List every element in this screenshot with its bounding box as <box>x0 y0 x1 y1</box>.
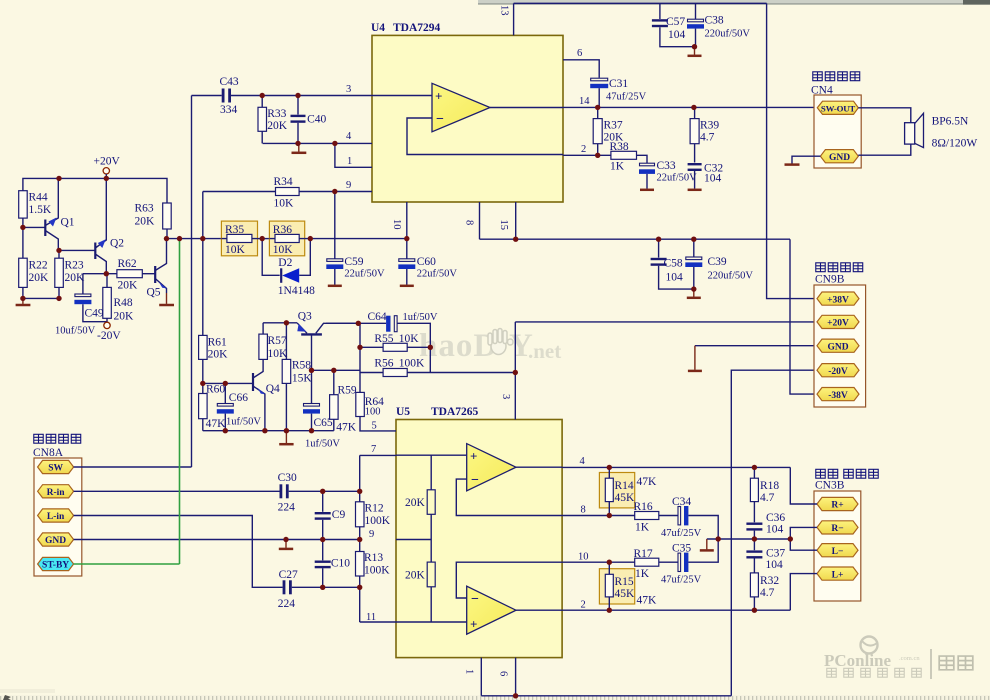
svg-text:TDA7294: TDA7294 <box>393 22 441 34</box>
svg-text:CN9B: CN9B <box>815 274 845 286</box>
svg-text:GND: GND <box>829 153 850 163</box>
speaker BP6.5N <box>905 113 978 149</box>
svg-text:L+: L+ <box>832 570 844 580</box>
capacitor C35 <box>661 539 718 586</box>
transistor Q5 <box>147 239 168 299</box>
wire U5 pin3 riser <box>514 322 516 420</box>
svg-text:C36: C36 <box>766 512 785 524</box>
svg-text:Q2: Q2 <box>110 238 124 250</box>
op-amp U5 block <box>396 406 562 658</box>
wire CN9B GND <box>695 345 817 347</box>
wire speaker - <box>858 144 911 155</box>
svg-text:GND: GND <box>45 536 66 546</box>
resistor R35 highlighted <box>221 221 257 256</box>
svg-text:R62: R62 <box>118 258 137 270</box>
svg-text:R44: R44 <box>29 192 48 204</box>
svg-text:224: 224 <box>278 598 296 610</box>
wire Q3 base net <box>312 369 361 371</box>
svg-text:R23: R23 <box>65 260 84 272</box>
hexagon SW <box>38 460 74 473</box>
svg-text:1uf/50V: 1uf/50V <box>226 417 261 428</box>
svg-text:8: 8 <box>581 505 586 516</box>
svg-text:100K: 100K <box>399 358 425 370</box>
svg-text:20K: 20K <box>114 311 135 323</box>
ground GND net <box>285 540 287 548</box>
svg-text:U5: U5 <box>396 406 410 418</box>
svg-text:4.7: 4.7 <box>760 492 775 504</box>
hexagon CN9B GND <box>817 339 859 352</box>
transistor Q4 <box>253 359 280 430</box>
resistor R38 <box>610 141 648 173</box>
svg-text:GND: GND <box>827 342 848 352</box>
svg-text:104: 104 <box>704 173 722 185</box>
svg-text:47K: 47K <box>637 476 658 488</box>
svg-text:4: 4 <box>346 131 352 142</box>
wire R-in net <box>74 490 280 492</box>
svg-text:R58: R58 <box>292 360 311 372</box>
svg-text:9: 9 <box>369 529 374 540</box>
svg-text:1K: 1K <box>610 161 625 173</box>
resistor R57 <box>259 323 288 360</box>
svg-text:15K: 15K <box>292 373 313 385</box>
hexagon CN4 GND <box>820 150 858 163</box>
capacitor C9 <box>315 491 346 539</box>
wire U4 pin10 drop <box>406 202 408 259</box>
svg-text:20K: 20K <box>118 280 139 292</box>
svg-text:C10: C10 <box>331 558 350 570</box>
ground pin4 net <box>298 143 300 151</box>
wire Q3 emitter <box>263 322 297 324</box>
svg-text:104: 104 <box>666 272 684 284</box>
hexagon R- <box>817 521 858 534</box>
ground bias <box>22 298 24 304</box>
resistor R55 <box>360 333 430 351</box>
svg-text:3: 3 <box>346 84 351 95</box>
svg-text:C27: C27 <box>279 569 298 581</box>
resistor R56 <box>360 358 515 377</box>
svg-text:R63: R63 <box>135 203 154 215</box>
svg-text:4.7: 4.7 <box>700 132 715 144</box>
wire +38V riser <box>767 3 817 298</box>
svg-text:R15: R15 <box>615 576 634 588</box>
hexagon L- <box>817 544 858 557</box>
svg-text:1.5K: 1.5K <box>29 204 52 216</box>
wire U5B output inner <box>516 609 562 611</box>
svg-text:45K: 45K <box>615 492 636 504</box>
svg-text:1uf/50V: 1uf/50V <box>403 312 438 323</box>
wire U4 pin2 net <box>563 154 611 156</box>
wire bias output <box>167 238 221 240</box>
svg-text:22uf/50V: 22uf/50V <box>417 269 458 280</box>
svg-text:20K: 20K <box>405 497 426 509</box>
ground under C38 <box>688 47 702 56</box>
ground driver bus <box>285 431 287 444</box>
wire -Vs rail <box>480 238 791 240</box>
svg-text:8: 8 <box>464 220 475 225</box>
svg-text:C64: C64 <box>368 311 387 323</box>
resistor R18 <box>750 467 779 522</box>
hexagon -20V <box>817 364 859 377</box>
capacitor C38 <box>687 3 750 46</box>
svg-text:20K: 20K <box>65 272 86 284</box>
resistor R23 <box>55 250 85 298</box>
svg-text:20K: 20K <box>405 570 426 582</box>
svg-text:R35: R35 <box>225 224 244 236</box>
node dots left bias <box>56 176 61 181</box>
svg-text:104: 104 <box>766 559 784 571</box>
svg-text:−: − <box>436 112 444 127</box>
resistor R36 highlighted <box>269 221 304 256</box>
diode D2 1N4148 <box>262 239 315 297</box>
svg-text:R56: R56 <box>374 358 393 370</box>
capacitor C30 <box>278 472 360 514</box>
resistor 20K upper inner <box>405 455 435 562</box>
svg-text:+: + <box>470 449 477 464</box>
wire U5 pin10 net <box>562 561 635 563</box>
svg-text:10K: 10K <box>225 244 246 256</box>
svg-text:14: 14 <box>579 96 590 107</box>
capacitor C57 <box>652 3 695 46</box>
resistor R12 <box>356 455 391 539</box>
resistor R44 <box>19 191 52 218</box>
hexagon -38V <box>817 388 859 401</box>
svg-text:C66: C66 <box>229 392 248 404</box>
resistor R33 <box>258 96 288 144</box>
svg-text:20K: 20K <box>29 272 50 284</box>
svg-text:R39: R39 <box>700 120 719 132</box>
wire SW net riser <box>74 96 192 468</box>
svg-text:5: 5 <box>372 421 377 432</box>
svg-text:R55: R55 <box>374 333 393 345</box>
svg-text:100: 100 <box>365 407 381 418</box>
op-amp U5A triangle <box>467 444 516 491</box>
wire U5 pin4 output net <box>562 466 790 468</box>
ground under C33 <box>640 189 654 192</box>
svg-text:+: + <box>435 89 442 104</box>
svg-text:20K: 20K <box>135 216 156 228</box>
wire U5 pin11 inner <box>396 621 467 623</box>
svg-text:2: 2 <box>581 144 586 155</box>
resistor R15 highlighted <box>599 562 657 610</box>
wire Q2 base <box>59 249 95 251</box>
svg-text:BP6.5N: BP6.5N <box>932 116 969 128</box>
capacitor C27 <box>278 569 360 610</box>
svg-text:100K: 100K <box>364 565 390 577</box>
resistor R13 <box>356 540 391 623</box>
wire R44 to R22 <box>22 218 24 258</box>
capacitor C43 <box>192 76 373 116</box>
connector CN9B <box>814 263 866 407</box>
resistor R37 <box>593 107 624 155</box>
wire R+ riser <box>790 467 817 504</box>
svg-text:−: − <box>471 473 479 488</box>
ground under C39 <box>693 289 695 297</box>
svg-text:9: 9 <box>346 180 351 191</box>
svg-text:2: 2 <box>581 600 586 611</box>
svg-text:C31: C31 <box>609 78 628 90</box>
transistor Q3 <box>297 311 358 371</box>
svg-text:Q3: Q3 <box>298 311 312 323</box>
bottom-left tiny icon <box>3 695 11 700</box>
hexagon +38V <box>817 292 859 305</box>
capacitor C32 <box>688 163 724 189</box>
watermark haoDIY.net <box>419 328 561 364</box>
svg-text:20K: 20K <box>267 120 288 132</box>
resistor R59 <box>330 370 357 433</box>
resistor R60 <box>199 383 227 430</box>
hexagon CN8A GND <box>38 533 74 546</box>
svg-text:+: + <box>470 617 477 632</box>
svg-text:4: 4 <box>580 456 586 467</box>
hexagon ST-BY <box>38 557 74 570</box>
svg-text:6: 6 <box>577 48 582 59</box>
resistor R39 <box>690 107 719 162</box>
svg-text:10K: 10K <box>268 348 289 360</box>
op-amp U4 triangle <box>432 83 490 132</box>
svg-text:47uf/25V: 47uf/25V <box>661 528 702 539</box>
svg-text:10uf/50V: 10uf/50V <box>55 326 96 337</box>
capacitor C66 <box>217 383 262 430</box>
svg-text:8Ω/120W: 8Ω/120W <box>932 138 978 150</box>
capacitor C40 <box>291 96 327 144</box>
svg-text:334: 334 <box>220 104 238 116</box>
svg-text:−: − <box>471 592 479 607</box>
svg-text:L-in: L-in <box>47 512 65 522</box>
resistor R62 <box>117 258 155 292</box>
ground under C32 <box>688 189 702 192</box>
wire U4 output inner <box>490 107 563 109</box>
resistor R48 <box>103 274 134 323</box>
wire U5 pin2 output net <box>562 609 790 611</box>
svg-text:R+: R+ <box>831 501 843 511</box>
ground C59 <box>328 285 342 288</box>
wire U4 feedback inner pin2 <box>407 118 563 155</box>
svg-text:L−: L− <box>832 547 844 557</box>
svg-text:4.7: 4.7 <box>760 587 775 599</box>
svg-text:C43: C43 <box>220 76 239 88</box>
svg-text:R18: R18 <box>760 480 779 492</box>
wire -38V riser <box>790 239 817 394</box>
wire R34 left riser <box>202 192 204 336</box>
wire U4 pin14 output net <box>563 106 817 108</box>
wire R35-R36 <box>258 238 270 240</box>
svg-text:-20V: -20V <box>828 367 848 377</box>
op-amp U5B triangle <box>467 586 516 634</box>
bottom dotted strip <box>0 695 990 700</box>
svg-text:100K: 100K <box>365 515 391 527</box>
wire U5 pin9 inner <box>396 539 431 541</box>
capacitor C31 <box>590 78 646 107</box>
wire U4 pin4 <box>263 142 372 144</box>
node dots input network <box>320 489 325 494</box>
hexagon +20V <box>817 315 859 328</box>
svg-text:C59: C59 <box>344 256 363 268</box>
wire mid R-channel return <box>707 538 791 540</box>
svg-text:104: 104 <box>668 29 686 41</box>
wire pin11 stub <box>360 621 396 623</box>
svg-text:R12: R12 <box>365 503 384 515</box>
wire U5A feedback pin8 inner <box>456 479 562 515</box>
svg-text:47uf/25V: 47uf/25V <box>661 575 702 586</box>
svg-text:47K: 47K <box>206 418 227 430</box>
wire GND net <box>74 539 360 541</box>
svg-text:D2: D2 <box>278 257 292 269</box>
svg-text:TDA7265: TDA7265 <box>431 406 479 418</box>
svg-text:C39: C39 <box>708 256 727 268</box>
capacitor C10 <box>315 540 351 588</box>
svg-text:10K: 10K <box>274 198 295 210</box>
wire U5 bottom -Vs <box>481 695 731 697</box>
svg-text:C34: C34 <box>672 496 691 508</box>
svg-text:1uf/50V: 1uf/50V <box>305 439 340 450</box>
svg-text:R61: R61 <box>208 337 227 349</box>
svg-text:47uf/25V: 47uf/25V <box>606 92 647 103</box>
resistor R34 <box>203 176 372 210</box>
svg-text:U4: U4 <box>371 22 385 34</box>
resistor R16 <box>634 501 679 534</box>
wire U4 pin8 drop <box>479 202 481 239</box>
svg-text:224: 224 <box>278 502 296 514</box>
wire U5A output inner <box>516 466 562 468</box>
svg-text:R14: R14 <box>615 480 634 492</box>
node -20V <box>97 322 121 342</box>
svg-text:R32: R32 <box>760 575 779 587</box>
svg-text:SW-OUT: SW-OUT <box>821 103 855 113</box>
wire U4 pin1 stub <box>335 143 372 167</box>
svg-text:10K: 10K <box>399 333 420 345</box>
svg-text:45K: 45K <box>615 588 636 600</box>
svg-text:1: 1 <box>464 669 475 674</box>
svg-text:R22: R22 <box>29 260 48 272</box>
resistor R17 <box>634 548 679 580</box>
watermark PConline bottom right <box>824 637 973 680</box>
wire U5 pin8 net <box>562 515 635 517</box>
op-amp U4 block <box>371 22 563 202</box>
top window strip <box>478 0 990 5</box>
svg-text:C49: C49 <box>85 308 104 320</box>
hexagon R+ <box>817 497 858 510</box>
wire U4 pin6 stub <box>563 60 599 78</box>
resistor R61 <box>199 335 229 383</box>
svg-text:+20V: +20V <box>827 319 849 329</box>
wire U5 pin6 drop <box>515 658 517 696</box>
svg-text:C60: C60 <box>417 256 436 268</box>
svg-text:C58: C58 <box>664 258 683 270</box>
svg-text:1: 1 <box>347 156 352 167</box>
connector CN8A <box>33 434 82 576</box>
svg-text:.net: .net <box>528 339 561 363</box>
svg-text:1K: 1K <box>635 522 650 534</box>
svg-text:+20V: +20V <box>94 156 121 168</box>
wire U4 pin3 inner <box>372 95 432 97</box>
wire +20V net to pin3 <box>515 321 817 323</box>
svg-text:3: 3 <box>500 394 511 399</box>
capacitor C37 <box>746 539 785 571</box>
svg-text:R48: R48 <box>114 297 133 309</box>
transistor Q2 <box>95 178 124 273</box>
capacitor C33 <box>639 160 697 189</box>
svg-text:CN8A: CN8A <box>33 447 64 459</box>
node dots driver <box>200 381 205 386</box>
node +20V <box>94 156 121 179</box>
wire L+ riser <box>790 574 817 611</box>
svg-text:R38: R38 <box>610 141 629 153</box>
wire Q1 base <box>23 226 45 228</box>
svg-text:13: 13 <box>499 5 510 16</box>
wire U5 pin1 drop <box>480 658 482 696</box>
capacitor C65 <box>303 370 340 449</box>
connector CN4 <box>0 0 861 168</box>
wire pin7 stub <box>360 454 396 456</box>
hexagon L-in <box>38 509 74 522</box>
resistor R58 <box>282 323 312 431</box>
svg-text:SW: SW <box>48 464 63 474</box>
resistor 20K lower inner <box>405 562 435 622</box>
svg-text:C30: C30 <box>278 472 297 484</box>
svg-text:Q1: Q1 <box>61 217 75 229</box>
svg-text:47K: 47K <box>336 422 357 434</box>
capacitor C60 <box>398 256 457 285</box>
svg-text:22uf/50V: 22uf/50V <box>344 269 385 280</box>
capacitor C49 <box>55 274 107 337</box>
connector CN3B <box>814 469 878 601</box>
svg-text:10: 10 <box>391 219 402 230</box>
resistor R32 <box>750 559 779 611</box>
svg-text:.com.cn: .com.cn <box>899 655 920 662</box>
svg-text:C40: C40 <box>307 114 326 126</box>
svg-text:R60: R60 <box>206 384 225 396</box>
wire speaker + <box>858 108 911 123</box>
ground CN9B <box>694 346 696 370</box>
hexagon SW-OUT <box>817 101 858 114</box>
node dots U5 right <box>607 465 612 470</box>
wire R36 to pin10 node <box>305 238 407 240</box>
wire U4 pin15 drop <box>515 202 517 239</box>
svg-text:ST-BY: ST-BY <box>42 561 69 571</box>
ground CN4 <box>785 163 800 166</box>
svg-text:1N4148: 1N4148 <box>278 285 315 297</box>
svg-text:C38: C38 <box>705 15 724 27</box>
svg-text:6: 6 <box>498 671 509 676</box>
svg-text:C57: C57 <box>666 16 685 28</box>
wire driver ground bus <box>203 430 334 432</box>
svg-text:Q5: Q5 <box>147 287 161 299</box>
svg-text:R17: R17 <box>634 548 653 560</box>
svg-text:R36: R36 <box>273 224 292 236</box>
wire -20V net <box>731 370 817 696</box>
capacitor C59 <box>326 192 385 285</box>
resistor R63 <box>135 203 172 239</box>
svg-text:-38V: -38V <box>828 391 848 401</box>
svg-text:220uf/50V: 220uf/50V <box>708 271 754 282</box>
capacitor C36 <box>746 512 785 539</box>
svg-text:R13: R13 <box>364 552 383 564</box>
resistor R22 <box>19 258 49 287</box>
svg-text:R-in: R-in <box>47 488 66 498</box>
node dots U4 right <box>595 105 600 110</box>
svg-text:104: 104 <box>766 524 784 536</box>
wire top +Vs rail <box>514 2 767 4</box>
hexagon R-in <box>38 485 74 498</box>
wire Q4 base <box>203 382 253 384</box>
svg-text:PConline: PConline <box>824 651 892 670</box>
svg-text:R37: R37 <box>604 120 623 132</box>
svg-text:R16: R16 <box>634 501 653 513</box>
wire U5 pin7 inner <box>396 454 467 456</box>
capacitor C39 <box>685 239 753 289</box>
wire U5B feedback pin10 inner <box>456 562 562 598</box>
svg-text:1K: 1K <box>635 568 650 580</box>
